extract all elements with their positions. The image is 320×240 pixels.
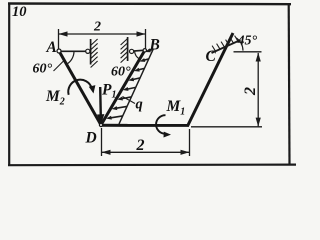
angle arc 60 deg at A (67, 51, 75, 64)
bar AD (59, 51, 101, 125)
force P1 arrow (99, 87, 102, 117)
angle arc 45 deg at C (236, 38, 243, 51)
support surface at C (212, 40, 241, 53)
support C hatching (212, 36, 238, 52)
bottom dimension line 2 (102, 150, 190, 155)
svg-text:2: 2 (242, 87, 259, 96)
wire dimension extension below E (189, 129, 191, 156)
wall 1 hatching (91, 39, 98, 68)
wire dimension extension line above A (58, 29, 60, 50)
table cell border right (288, 4, 291, 165)
top dimension line 2 (59, 31, 146, 36)
node D dot (99, 123, 102, 126)
distributed load envelope line (119, 49, 154, 125)
leader line for q (123, 97, 136, 104)
distributed load q arrows (106, 48, 153, 119)
svg-text:q: q (136, 97, 143, 113)
wall 2 vertical face (127, 37, 129, 61)
pin circle at B (143, 49, 146, 52)
right dimension line 2 vertical (256, 53, 261, 127)
table cell border left (8, 3, 10, 167)
pin circle at wall 2 (130, 49, 134, 53)
svg-text:2: 2 (136, 137, 145, 154)
link rod from wall pin to B (129, 50, 145, 51)
link rod from A to wall pin (59, 50, 88, 52)
svg-text:2: 2 (93, 20, 101, 35)
wire dimension extension below D (101, 128, 103, 156)
moment M2 arc (68, 80, 92, 95)
bar DE horizontal (100, 124, 188, 127)
table cell border bottom (8, 164, 296, 167)
svg-text:A: A (46, 39, 57, 56)
table cell border top (8, 2, 291, 5)
svg-text:60°: 60° (33, 62, 53, 77)
wall 2 hatching (121, 39, 128, 63)
wire horizontal extension at C level (234, 51, 262, 53)
pin circle at A (57, 49, 61, 53)
wire dimension extension line above B (145, 29, 147, 49)
pin circle at wall 1 (86, 49, 90, 53)
moment M1 arc (156, 115, 165, 134)
svg-text:D: D (85, 130, 97, 147)
leader line for left 60 deg (54, 61, 64, 71)
wire horizontal extension at E level (191, 126, 262, 128)
angle arc 60 deg at B (135, 51, 140, 60)
svg-text:60°: 60° (111, 65, 131, 80)
svg-text:45°: 45° (237, 34, 258, 49)
bar BD (101, 50, 145, 125)
svg-text:10: 10 (12, 4, 27, 20)
wall 1 vertical face (90, 39, 92, 65)
bar EC inclined (187, 33, 233, 127)
